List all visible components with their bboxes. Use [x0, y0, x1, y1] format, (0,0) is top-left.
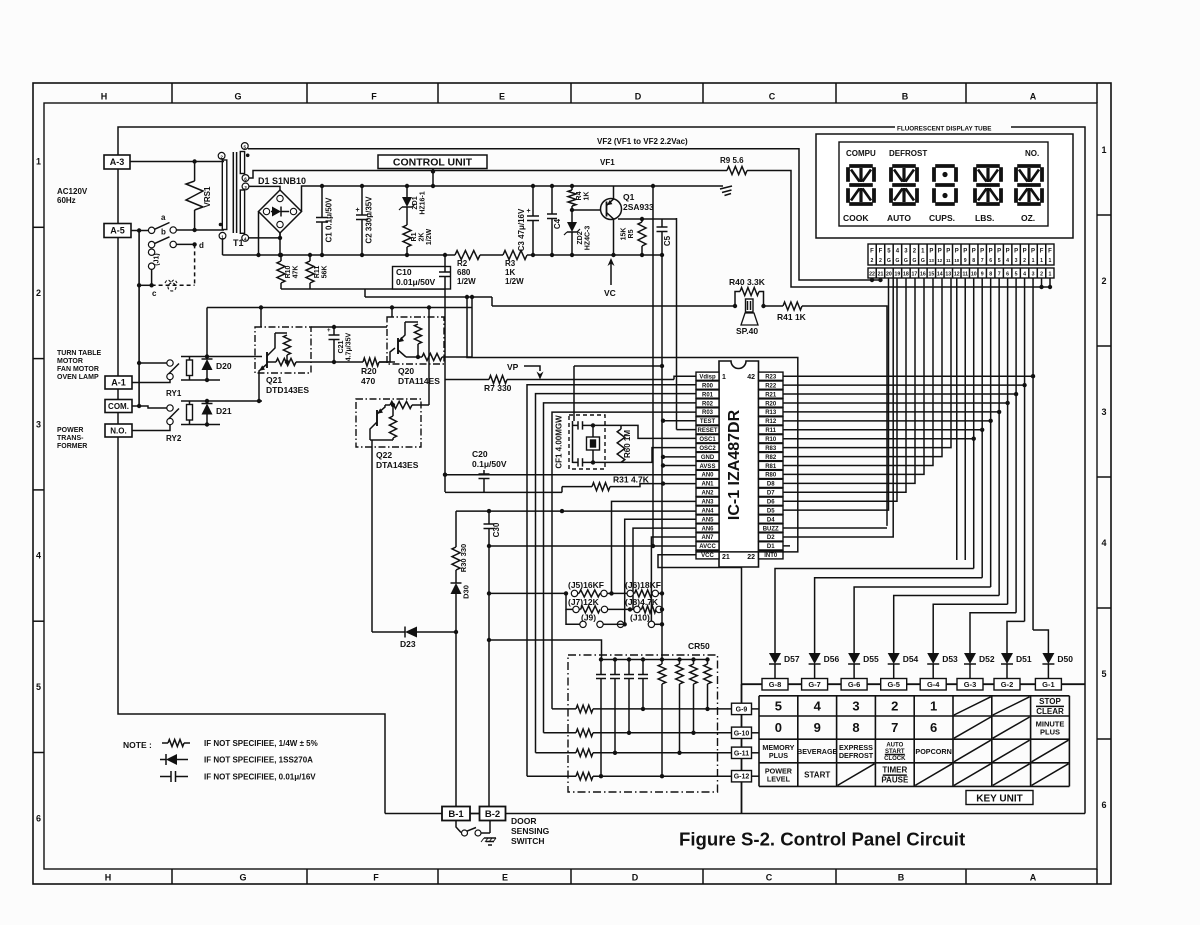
- svg-text:2: 2: [1040, 272, 1043, 278]
- svg-text:C10: C10: [396, 267, 412, 277]
- terminal B-2: [480, 807, 506, 821]
- wire - OSC2 lead: [621, 448, 696, 463]
- terminal G-3: [957, 679, 983, 691]
- svg-text:R23: R23: [765, 375, 777, 381]
- svg-text:DTA114ES: DTA114ES: [398, 376, 440, 386]
- pin AN0 (IC left pin 12): [696, 470, 719, 478]
- wire - T1 pin4 to bridge bottom: [249, 233, 280, 238]
- wire - Q21 base line to R20: [298, 361, 363, 363]
- capacitor C21 4.7u/35V: [333, 340, 335, 363]
- pin AN6 (IC left pin 18): [696, 524, 719, 532]
- svg-text:1K: 1K: [505, 268, 515, 277]
- wire - display pin 16 to IC pin R80: [783, 278, 924, 474]
- jumper (J2) symbol: [165, 280, 177, 283]
- svg-text:CLEAR: CLEAR: [1036, 707, 1064, 716]
- wire - AN6 line: [633, 528, 696, 609]
- pin VCC (IC left pin 21): [696, 551, 719, 559]
- svg-text:G: G: [887, 258, 891, 264]
- svg-text:D: D: [632, 873, 639, 883]
- wire - G bus top edge of key unit: [742, 683, 1086, 685]
- svg-text:18: 18: [903, 272, 909, 278]
- diode D57: [774, 650, 776, 653]
- svg-text:+: +: [527, 208, 531, 215]
- svg-text:E: E: [499, 92, 505, 102]
- svg-text:B-2: B-2: [485, 809, 500, 820]
- wire - D20 feed from 307 line: [206, 308, 208, 357]
- wire - G-10 row: [544, 732, 577, 734]
- svg-text:1: 1: [1032, 258, 1035, 264]
- svg-text:R5: R5: [628, 229, 635, 238]
- svg-text:D54: D54: [903, 654, 919, 664]
- wire - 0V rail right: [527, 254, 662, 256]
- pin AN2 (IC left pin 14): [696, 488, 719, 496]
- wire - Q1 emitter node to RESET vertical: [662, 218, 677, 220]
- pin TEST (IC left pin 6): [696, 417, 719, 425]
- svg-text:1: 1: [1040, 258, 1043, 264]
- wire - D2 row: [783, 278, 893, 537]
- pin INT0 (IC right pin 22): [759, 551, 784, 559]
- terminal N.O.: [105, 424, 132, 437]
- pin RESET (IC left pin 7): [696, 426, 719, 434]
- door sensing switch: [456, 821, 461, 833]
- svg-text:60Hz: 60Hz: [57, 196, 76, 205]
- diode D53: [932, 650, 934, 653]
- transformer T1 core: [232, 152, 234, 233]
- pin AN1 (IC left pin 13): [696, 479, 719, 487]
- pin R20 (IC right pin 39): [759, 399, 784, 407]
- diode D55: [853, 650, 855, 653]
- svg-text:KEY UNIT: KEY UNIT: [976, 794, 1023, 805]
- svg-text:R20: R20: [361, 366, 377, 376]
- svg-text:H: H: [105, 873, 112, 883]
- wire - IC pin R10 row: [783, 438, 974, 440]
- svg-text:FORMER: FORMER: [57, 443, 87, 450]
- wire - ground net down to CF1 bus: [573, 366, 575, 421]
- wire - Q1 emitter R5 C5 top link: [618, 218, 662, 220]
- svg-text:R13: R13: [765, 410, 777, 416]
- svg-text:(J8)4.7K: (J8)4.7K: [625, 597, 659, 607]
- transistor Q1 2SA933: [601, 199, 622, 220]
- svg-text:D7: D7: [767, 491, 775, 497]
- svg-text:c: c: [152, 289, 157, 298]
- wire - COM branch to RY1 contact: [139, 362, 167, 364]
- svg-text:N.O.: N.O.: [110, 426, 126, 435]
- svg-text:680: 680: [457, 268, 471, 277]
- svg-text:R81: R81: [765, 464, 777, 470]
- switch contact b: [148, 241, 154, 247]
- svg-text:C: C: [766, 873, 773, 883]
- pin GND (IC left pin 10): [696, 452, 719, 460]
- node - bridge minus rail: [256, 253, 260, 257]
- svg-text:1K: 1K: [584, 192, 591, 201]
- svg-text:PAUSE: PAUSE: [881, 776, 909, 785]
- wire - Q20 output: [444, 356, 472, 358]
- svg-text:A-5: A-5: [110, 226, 125, 236]
- svg-text:VCC: VCC: [701, 553, 714, 559]
- diode D51: [1006, 650, 1008, 653]
- resistor R1 2K 1/2W: [406, 207, 408, 225]
- svg-text:R3: R3: [505, 259, 516, 268]
- wire - Q22 feed: [428, 308, 430, 406]
- terminal G-2: [994, 679, 1020, 691]
- wire - RY1 coil rails: [181, 356, 262, 358]
- CR50 network box: [568, 655, 718, 792]
- zener diode ZD2 HZ4C-3: [571, 210, 573, 222]
- wire - COM to feed vertical: [132, 405, 139, 407]
- svg-text:R4: R4: [576, 191, 583, 200]
- wire - VF1 line left: [249, 171, 727, 179]
- svg-text:6: 6: [36, 813, 41, 823]
- transistor Q20 internals: [379, 348, 395, 362]
- resistor G-11 row resistor: [576, 749, 593, 757]
- capacitor C5: [661, 219, 663, 227]
- pin D1 (IC right pin 23): [759, 542, 784, 550]
- svg-text:VF1: VF1: [600, 158, 615, 167]
- svg-text:G-5: G-5: [887, 680, 900, 689]
- resistor G-10 row resistor: [576, 729, 593, 737]
- svg-text:BUZZ: BUZZ: [763, 526, 779, 532]
- svg-text:7: 7: [891, 720, 898, 735]
- svg-text:VRS1: VRS1: [203, 186, 212, 207]
- svg-text:AN6: AN6: [701, 526, 714, 532]
- svg-text:P: P: [929, 249, 933, 255]
- display digit 2: [892, 164, 916, 168]
- wire - D1 stub: [783, 545, 790, 547]
- wire - R02 scan line: [544, 403, 697, 733]
- svg-text:3: 3: [1101, 407, 1106, 417]
- svg-text:R7 330: R7 330: [484, 383, 512, 393]
- svg-text:12: 12: [954, 272, 960, 278]
- wire - G-9 row: [552, 708, 576, 710]
- display tube outer box: [816, 134, 1073, 238]
- terminal G-1: [1035, 679, 1061, 691]
- svg-text:R02: R02: [702, 401, 714, 407]
- svg-text:IF NOT SPECIFIEE, 0.01μ/16V: IF NOT SPECIFIEE, 0.01μ/16V: [204, 773, 316, 782]
- pin R80 (IC right pin 31): [759, 470, 784, 478]
- wire - Q20 feed: [391, 308, 393, 318]
- node - VRS1 bottom: [192, 228, 196, 232]
- svg-text:IF NOT SPECIFIEE, 1/4W ± 5%: IF NOT SPECIFIEE, 1/4W ± 5%: [204, 739, 318, 748]
- wire - display pin 9 column to diode D56: [981, 278, 983, 578]
- wire - bridge minus to rail: [258, 212, 260, 256]
- pin R01 (IC left pin 3): [696, 390, 719, 398]
- relay RY1 contact: [167, 360, 173, 366]
- svg-text:P: P: [1014, 249, 1018, 255]
- relay RY2 coil: [187, 405, 193, 421]
- svg-text:19: 19: [895, 272, 901, 278]
- speaker SP.40: [746, 299, 754, 312]
- svg-text:11: 11: [946, 258, 951, 263]
- label FLUORESCENT DISPLAY TUBE: [895, 123, 1011, 132]
- svg-text:AVCC: AVCC: [699, 544, 716, 550]
- wire - B-1 B-2 link: [470, 813, 480, 815]
- svg-text:15K: 15K: [621, 228, 628, 241]
- svg-text:Q21: Q21: [266, 375, 282, 385]
- svg-text:VC: VC: [604, 288, 616, 298]
- wire - 663 vertical to CR50: [661, 366, 663, 660]
- svg-text:D1: D1: [767, 544, 775, 550]
- wire - dashed d to J2: [194, 244, 196, 284]
- key matrix grid: [758, 696, 760, 787]
- pin OSC1 (IC left pin 8): [696, 435, 719, 443]
- wire - CR50 top bus: [601, 659, 708, 661]
- svg-text:COMPU: COMPU: [846, 149, 876, 158]
- svg-text:21: 21: [878, 272, 884, 278]
- bridge rectifier D1: [259, 190, 302, 233]
- pin R22 (IC right pin 41): [759, 381, 784, 389]
- node c: [149, 283, 153, 287]
- terminal 2: [218, 152, 225, 159]
- svg-text:DOOR: DOOR: [511, 816, 537, 826]
- pin AN3 (IC left pin 15): [696, 497, 719, 505]
- display digit 1: [849, 164, 873, 168]
- svg-text:3: 3: [36, 419, 41, 429]
- diode D50: [1047, 650, 1049, 653]
- svg-text:OSC1: OSC1: [699, 437, 716, 443]
- svg-text:R11: R11: [765, 428, 776, 434]
- resistor R41 1K: [764, 305, 784, 307]
- wire - Q21 collector rail to Q20 box: [311, 326, 387, 328]
- resistor CR50 R2: [677, 657, 681, 661]
- svg-text:D53: D53: [942, 654, 958, 664]
- terminal A-1: [105, 376, 132, 389]
- wire - display pin 7 column to diode D54: [998, 278, 1000, 596]
- key unit label box: [966, 791, 1033, 805]
- wire - display pin 11 vertical: [964, 278, 966, 560]
- resistor G-12 row resistor: [576, 772, 593, 780]
- svg-text:C30: C30: [492, 522, 501, 537]
- wire - display pin 3 column to diode D50: [1032, 278, 1034, 630]
- terminal G-7: [802, 679, 828, 691]
- pin AN4 (IC left pin 16): [696, 506, 719, 514]
- svg-text:10: 10: [971, 272, 977, 278]
- svg-text:OZ.: OZ.: [1021, 213, 1035, 223]
- svg-text:F: F: [1048, 249, 1052, 255]
- svg-text:8: 8: [852, 720, 859, 735]
- pin D8 (IC right pin 30): [759, 479, 784, 487]
- svg-text:IF NOT SPECIFIEE, 1SS270A: IF NOT SPECIFIEE, 1SS270A: [204, 756, 313, 765]
- svg-text:BEVERAGE: BEVERAGE: [797, 747, 838, 756]
- pin R23 (IC right pin 42): [759, 372, 784, 380]
- svg-text:P: P: [946, 249, 950, 255]
- wire - A-3 to transformer primary top: [130, 161, 224, 163]
- control unit label box: [378, 155, 487, 169]
- wire - A-5 to switch a: [131, 230, 149, 232]
- svg-text:G-3: G-3: [964, 680, 977, 689]
- transformer T1 secondary winding upper: [240, 152, 244, 174]
- wire - IC pin R22 row: [783, 384, 1025, 386]
- svg-text:9: 9: [814, 720, 821, 735]
- terminal B-1: [442, 807, 470, 821]
- svg-text:2: 2: [871, 258, 874, 264]
- svg-text:D57: D57: [784, 654, 800, 664]
- svg-text:DEFROST: DEFROST: [889, 149, 927, 158]
- wire - display pin 19 to IC pin D6: [783, 278, 897, 501]
- svg-text:R01: R01: [702, 392, 714, 398]
- wire - VCC line under IC to key unit: [658, 555, 742, 686]
- wire - CR50 cap bus feed from B-2 net: [489, 640, 602, 660]
- terminal COM.: [105, 400, 132, 413]
- svg-text:AUTO: AUTO: [887, 213, 911, 223]
- wire - display pin 15 to IC pin R81: [783, 278, 933, 466]
- wire - C30 down to B-2: [488, 546, 490, 807]
- capacitor C1 0.1u/50V: [321, 186, 323, 218]
- node - jumper feed: [487, 591, 491, 595]
- resistor R2 680 1/2W: [455, 251, 480, 260]
- wire - AVCC line: [489, 545, 696, 547]
- resistor R31 4.7K: [561, 487, 563, 493]
- wire - bridge bottom to 0V rail: [279, 233, 281, 255]
- svg-text:LEVEL: LEVEL: [767, 775, 791, 784]
- svg-text:0.01μ/50V: 0.01μ/50V: [396, 277, 436, 287]
- svg-text:5: 5: [775, 698, 782, 713]
- wire - display pin 10 column to diode D57: [973, 278, 975, 569]
- wire - display pin 18 to IC pin D7: [783, 278, 906, 492]
- svg-text:LBS.: LBS.: [975, 213, 994, 223]
- wire - 653 vertical supply: [652, 186, 654, 546]
- svg-text:2: 2: [1023, 258, 1026, 264]
- svg-text:P: P: [1023, 249, 1027, 255]
- wire - display pin 4 column to diode D51: [1024, 278, 1026, 621]
- terminal 5: [241, 143, 248, 150]
- svg-text:3: 3: [1032, 272, 1035, 278]
- varistor VRS1: [194, 162, 196, 182]
- svg-text:1: 1: [36, 157, 41, 167]
- svg-text:G-10: G-10: [734, 730, 750, 737]
- svg-text:D20: D20: [216, 361, 232, 371]
- svg-text:4: 4: [1023, 272, 1026, 278]
- svg-text:OSC2: OSC2: [699, 446, 716, 452]
- note capacitor symbol: [160, 776, 171, 778]
- display connector pin number row: [868, 268, 1054, 278]
- wire - AN2 line with R31: [445, 491, 562, 493]
- svg-text:F: F: [870, 249, 874, 255]
- svg-text:AN5: AN5: [701, 517, 714, 523]
- terminal G-4: [920, 679, 946, 691]
- wire - display pin 17 to IC pin D8: [783, 278, 915, 483]
- pin AN5 (IC left pin 17): [696, 515, 719, 523]
- svg-text:P: P: [955, 249, 959, 255]
- svg-text:R41 1K: R41 1K: [777, 312, 807, 322]
- pin R03 (IC left pin 5): [696, 408, 719, 416]
- svg-text:47K: 47K: [293, 266, 300, 279]
- svg-text:AN7: AN7: [701, 535, 714, 541]
- svg-text:R82: R82: [765, 455, 777, 461]
- transistor Q20 DTA114ES box: [387, 317, 444, 364]
- display connector pin name row: [868, 244, 1054, 265]
- svg-text:8: 8: [989, 272, 992, 278]
- svg-text:E: E: [502, 873, 508, 883]
- svg-text:VF2 (VF1 to VF2 2.2Vac): VF2 (VF1 to VF2 2.2Vac): [597, 137, 688, 146]
- wire - C5 bottom down to osc ground net: [661, 255, 663, 366]
- wire - switch b to node d: [176, 243, 194, 245]
- IC U1 IC-1 IZA487DR body: [719, 361, 759, 567]
- resistor CR50 R1: [660, 657, 664, 661]
- svg-text:B: B: [902, 92, 909, 102]
- svg-text:START: START: [804, 771, 830, 780]
- pin D5 (IC right pin 27): [759, 506, 784, 514]
- wire - IC pin R23 row: [783, 375, 1033, 377]
- pin R83 (IC right pin 34): [759, 444, 784, 452]
- svg-text:P: P: [1031, 249, 1035, 255]
- diode D52: [969, 650, 971, 653]
- svg-text:R00: R00: [702, 383, 714, 389]
- svg-text:H: H: [101, 92, 108, 102]
- terminal A-5: [104, 224, 131, 238]
- capacitor CR50 C3: [627, 657, 631, 661]
- pin D7 (IC right pin 29): [759, 488, 784, 496]
- svg-text:17: 17: [911, 272, 917, 278]
- capacitor C10 0.01u/50V: [393, 267, 451, 290]
- svg-text:B-1: B-1: [448, 809, 464, 820]
- wire - RESET pull line: [677, 429, 697, 431]
- wire - jumper row3 left: [566, 609, 580, 624]
- svg-text:R1: R1: [411, 232, 418, 241]
- svg-text:1: 1: [722, 374, 726, 381]
- capacitor CR50 C1: [599, 657, 603, 661]
- svg-text:T1: T1: [233, 238, 244, 248]
- wire - ground net horizontal to 663 vertical: [574, 365, 662, 367]
- svg-text:AN1: AN1: [701, 482, 714, 488]
- wire - Q21 emitter to RY2 rail: [258, 373, 260, 401]
- svg-text:4: 4: [36, 551, 41, 561]
- svg-text:5: 5: [36, 682, 41, 692]
- svg-text:R30 330: R30 330: [459, 544, 468, 572]
- svg-text:12: 12: [937, 258, 942, 263]
- svg-text:5: 5: [998, 258, 1001, 264]
- svg-text:RESET: RESET: [697, 428, 717, 434]
- svg-text:Vdisp: Vdisp: [699, 375, 716, 381]
- svg-text:(J10): (J10): [630, 613, 650, 623]
- svg-text:G-11: G-11: [734, 750, 749, 757]
- svg-text:R40 3.3K: R40 3.3K: [729, 277, 766, 287]
- svg-text:D52: D52: [979, 654, 995, 664]
- svg-text:G-7: G-7: [808, 680, 821, 689]
- display digit 5: [1017, 164, 1041, 168]
- svg-text:6: 6: [1006, 272, 1009, 278]
- resistor CR50 R3: [691, 657, 695, 661]
- wire - COM feed vertical: [138, 231, 140, 408]
- svg-text:G-6: G-6: [848, 680, 861, 689]
- wire - AVSS to ground net: [663, 465, 696, 467]
- wire - display pin 14 to IC pin R82: [783, 278, 942, 457]
- terminal G-5: [881, 679, 907, 691]
- svg-text:R2: R2: [457, 259, 468, 268]
- terminal G-10: [752, 732, 760, 734]
- wire - speaker rail: [492, 305, 735, 307]
- svg-text:6: 6: [989, 258, 992, 264]
- wire - BUZZ row to speaker line: [783, 527, 887, 529]
- pin AN7 (IC left pin 19): [696, 533, 719, 541]
- pin R11 (IC right pin 36): [759, 426, 784, 434]
- svg-text:11: 11: [962, 272, 968, 278]
- note diode symbol: [160, 759, 166, 761]
- svg-text:R83: R83: [765, 446, 777, 452]
- svg-text:5: 5: [1015, 272, 1018, 278]
- capacitor C30: [488, 511, 490, 524]
- capacitor C3 47u/16V: [532, 186, 534, 216]
- svg-text:R12: R12: [765, 419, 777, 425]
- wire - R01 scan line: [536, 394, 697, 753]
- svg-text:1/2W: 1/2W: [505, 277, 524, 286]
- svg-text:16: 16: [920, 272, 926, 278]
- terminal 6: [242, 175, 249, 182]
- ground symbol door switch: [484, 837, 496, 839]
- svg-text:D21: D21: [216, 406, 232, 416]
- VC arrow: [608, 258, 615, 266]
- svg-text:6: 6: [930, 720, 937, 735]
- resistor R60 1M: [593, 424, 621, 426]
